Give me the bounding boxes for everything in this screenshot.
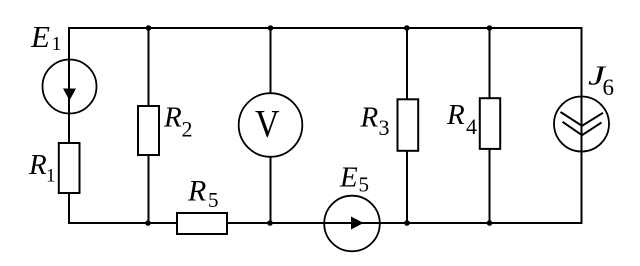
current source J6 chevron upper	[561, 112, 604, 126]
resistor R5	[177, 213, 227, 234]
junction dot bottom R4	[487, 220, 493, 226]
resistor R4	[480, 98, 500, 149]
wire top bus	[68, 27, 583, 29]
voltage source E1 circle	[43, 60, 97, 114]
junction dot top R4	[487, 25, 493, 31]
svg-text:R: R	[28, 149, 47, 181]
voltage source E5 arrow	[351, 217, 364, 230]
svg-text:5: 5	[208, 188, 219, 212]
wire V branch lower segment	[270, 156, 272, 223]
junction dot top R3	[404, 25, 410, 31]
svg-text:3: 3	[379, 115, 390, 140]
svg-text:4: 4	[466, 114, 477, 139]
svg-text:E: E	[339, 161, 358, 193]
resistor R2	[138, 106, 159, 155]
svg-text:6: 6	[603, 75, 615, 100]
voltage source E1 arrow	[63, 89, 76, 101]
wire left branch E1-R1	[68, 27, 70, 224]
current source J6 circle	[554, 97, 609, 152]
svg-text:1: 1	[46, 165, 56, 186]
wire R4 branch	[489, 28, 491, 223]
junction dot bottom R2	[145, 220, 151, 226]
svg-text:1: 1	[52, 33, 62, 55]
svg-text:E: E	[30, 19, 50, 54]
voltage source E5 circle	[324, 196, 380, 252]
wire R2 branch	[148, 28, 150, 223]
junction dot top R2	[146, 25, 152, 31]
svg-text:5: 5	[359, 173, 370, 197]
svg-text:2: 2	[182, 116, 193, 141]
current source J6 chevron lower	[563, 122, 602, 135]
svg-text:R: R	[360, 101, 379, 133]
svg-text:R: R	[163, 101, 182, 133]
svg-text:V: V	[255, 102, 280, 145]
svg-text:R: R	[446, 99, 465, 131]
wire R3 branch	[406, 28, 408, 223]
wire J6 branch	[581, 28, 583, 223]
junction dot bottom V	[267, 220, 273, 226]
wire bottom bus	[68, 222, 583, 224]
svg-text:R: R	[187, 175, 206, 208]
voltmeter V circle	[239, 93, 303, 157]
wire V branch upper segment	[270, 28, 272, 94]
junction dot top V	[268, 25, 274, 31]
junction dot bottom R3	[404, 220, 410, 226]
resistor R3	[398, 99, 419, 151]
resistor R1	[59, 143, 80, 193]
